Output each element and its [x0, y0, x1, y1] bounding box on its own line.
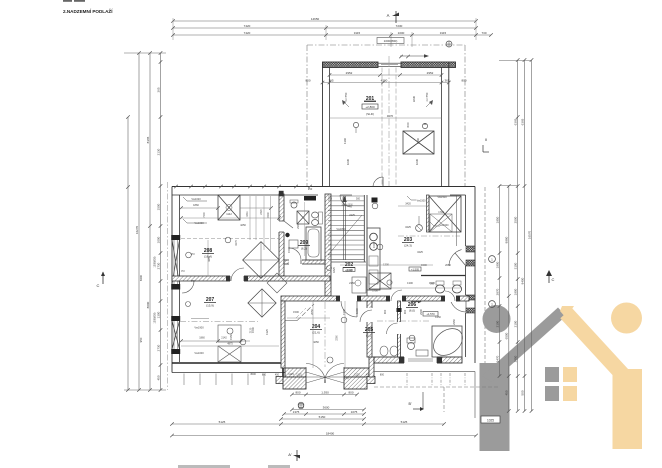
svg-text:(6,2): (6,2) — [301, 247, 307, 251]
svg-text:1325: 1325 — [265, 329, 269, 335]
svg-text:1500: 1500 — [429, 281, 435, 285]
svg-text:3470: 3470 — [495, 355, 499, 362]
svg-text:205: 205 — [365, 327, 374, 333]
svg-text:2100: 2100 — [514, 320, 518, 327]
svg-text:1000: 1000 — [355, 308, 359, 314]
svg-text:7420: 7420 — [244, 24, 251, 28]
svg-text:800: 800 — [380, 374, 385, 377]
logo tan figure head — [611, 303, 642, 334]
svg-text:1860: 1860 — [193, 203, 199, 207]
svg-text:8400: 8400 — [520, 277, 524, 284]
extension lines top chains — [172, 18, 174, 40]
entry double door arcs — [306, 364, 326, 384]
svg-text:P3: P3 — [191, 252, 195, 256]
wall 204 west — [281, 301, 285, 368]
extension strokes below wall — [183, 374, 185, 386]
svg-text:8365: 8365 — [146, 136, 150, 143]
svg-text:+1,570: +1,570 — [426, 312, 435, 316]
svg-text:1940: 1940 — [267, 212, 270, 218]
interior wall stair west vertical — [325, 194, 331, 296]
svg-text:4875: 4875 — [227, 343, 233, 346]
diagonal closet near 207 — [243, 242, 280, 279]
vent shaft dark box 209 — [304, 196, 316, 201]
arrow on top wall — [400, 55, 424, 57]
svg-text:4500: 4500 — [250, 372, 256, 376]
svg-text:18400: 18400 — [326, 431, 335, 435]
dash-dot stubs below south wall — [406, 373, 408, 386]
svg-text:1740: 1740 — [438, 211, 444, 214]
svg-text:500: 500 — [520, 390, 524, 395]
svg-text:C: C — [97, 283, 100, 288]
svg-text:1630: 1630 — [415, 158, 419, 165]
svg-text:1500: 1500 — [156, 203, 160, 210]
svg-text:1500: 1500 — [251, 327, 255, 333]
wc and bidet 209 — [312, 212, 319, 218]
kitchen counter 203 — [367, 228, 380, 290]
svg-text:800: 800 — [262, 374, 267, 377]
svg-text:2142: 2142 — [221, 337, 227, 340]
roof outline dash-dot top block — [307, 44, 465, 46]
svg-text:1125: 1125 — [354, 374, 360, 377]
svg-text:1950: 1950 — [229, 334, 233, 340]
south wall mid step — [369, 357, 374, 377]
stair door top — [340, 195, 352, 207]
svg-text:203: 203 — [404, 237, 413, 243]
svg-text:250: 250 — [308, 187, 313, 191]
svg-text:Vw1800: Vw1800 — [336, 227, 346, 231]
top dimension chain 7420/7230 — [173, 27, 476, 29]
crossed shaft room 208 — [218, 195, 240, 220]
svg-text:5125: 5125 — [219, 420, 226, 424]
svg-text:365: 365 — [156, 87, 160, 92]
svg-text:1500: 1500 — [287, 247, 291, 253]
dash-dot through 205/206 — [377, 320, 430, 322]
svg-text:450: 450 — [505, 390, 509, 395]
section marker C2 — [548, 271, 550, 283]
dim line room 207 — [181, 340, 250, 342]
svg-text:P3: P3 — [181, 269, 185, 273]
wc ovals right corridor — [435, 285, 444, 293]
shower crossed box 209 — [297, 211, 309, 224]
shaft box dark at stair top right — [372, 198, 378, 203]
svg-text:1450: 1450 — [435, 315, 441, 319]
washer room 209 — [289, 240, 298, 248]
svg-text:1025: 1025 — [487, 418, 494, 422]
south wall of room 207 — [172, 362, 283, 364]
right dimension chains — [499, 186, 501, 376]
svg-text:4450: 4450 — [207, 256, 211, 262]
circled num 207 — [186, 302, 191, 307]
svg-text:4670: 4670 — [387, 114, 394, 118]
svg-text:2850: 2850 — [514, 355, 518, 362]
entry wall right of door — [344, 368, 369, 377]
logo gray figure body — [480, 363, 510, 451]
svg-text:1300: 1300 — [342, 309, 346, 315]
svg-text:1700: 1700 — [372, 290, 378, 293]
svg-text:365: 365 — [444, 78, 449, 82]
door arcs on east wall — [449, 250, 462, 266]
svg-text:P3: P3 — [191, 279, 195, 283]
svg-text:1900: 1900 — [514, 288, 518, 295]
svg-text:2425: 2425 — [349, 213, 355, 217]
boxed level label 206 — [423, 312, 438, 317]
dresser room 207 — [218, 325, 241, 342]
svg-text:207: 207 — [206, 297, 215, 303]
svg-text:1140: 1140 — [416, 138, 420, 144]
svg-text:2300: 2300 — [419, 309, 423, 315]
svg-text:1860: 1860 — [199, 337, 205, 340]
interior dim lines — [181, 217, 279, 219]
hatched north wall of room 201 left part — [323, 62, 379, 68]
svg-text:1375: 1375 — [293, 410, 300, 414]
logo gray figure head — [483, 305, 511, 333]
svg-text:2500: 2500 — [514, 216, 518, 223]
svg-text:8400: 8400 — [139, 274, 143, 281]
svg-text:C: C — [552, 277, 555, 282]
center dash-dot room 204 — [324, 302, 326, 367]
svg-text:2730: 2730 — [156, 344, 160, 351]
svg-text:1950: 1950 — [495, 216, 499, 223]
terrace outline solid — [374, 371, 475, 373]
svg-text:800: 800 — [295, 390, 300, 394]
window in west wall (208) with X glazing — [171, 235, 180, 240]
center dashed lines in 201 — [381, 68, 383, 188]
svg-text:+1,505: +1,505 — [411, 267, 420, 271]
svg-text:3000: 3000 — [407, 122, 410, 128]
svg-text:(PS): (PS) — [343, 376, 348, 380]
wc 206 — [408, 343, 415, 350]
window in west wall (207) with X glazing — [171, 316, 180, 321]
svg-text:900: 900 — [383, 309, 387, 314]
svg-text:7200: 7200 — [203, 212, 206, 218]
logo tan arm / right roof slope — [566, 313, 623, 375]
svg-text:m=750: m=750 — [425, 92, 429, 101]
entry wall left of door — [285, 368, 306, 377]
svg-text:450: 450 — [275, 374, 280, 377]
boxed level labels corridor — [343, 268, 355, 272]
logo gray arm / left roof slope — [482, 308, 566, 383]
hatched north wall of room 201 right part — [401, 62, 456, 68]
svg-text:2730: 2730 — [156, 262, 160, 269]
svg-text:1140: 1140 — [343, 138, 347, 144]
svg-text:A': A' — [288, 452, 292, 457]
svg-text:2870: 2870 — [495, 288, 499, 295]
left chain top/bottom tick lines — [124, 52, 166, 54]
svg-text:5150: 5150 — [319, 415, 326, 419]
svg-text:450: 450 — [156, 375, 160, 380]
svg-text:2150: 2150 — [349, 281, 355, 285]
wall 209 south — [284, 260, 325, 264]
svg-text:206: 206 — [408, 302, 417, 308]
top dimension chain 7420/3115/1000/3115/730 — [173, 34, 491, 36]
circled nums on east facade — [489, 256, 496, 263]
bottom chain 3600 — [292, 409, 364, 411]
closet wall 202/203 — [427, 195, 430, 232]
svg-text:800: 800 — [305, 78, 310, 82]
dash-dot across 203 — [398, 235, 460, 237]
svg-text:1300: 1300 — [156, 311, 160, 318]
sink 206 — [416, 350, 428, 356]
svg-text:1500: 1500 — [293, 310, 299, 314]
svg-text:520: 520 — [342, 197, 347, 200]
bathroom 206 corner tub — [432, 326, 462, 357]
door at bottom of 201 — [373, 177, 383, 187]
dashed ceiling lines — [181, 237, 279, 239]
logo tan figure body — [613, 369, 643, 449]
svg-text:1500: 1500 — [372, 242, 376, 248]
bottom chain 5125/5125 — [172, 423, 444, 425]
svg-text:1900: 1900 — [495, 261, 499, 268]
window in north wall of 201 — [378, 62, 401, 64]
svg-text:8980: 8980 — [505, 236, 509, 243]
svg-text:(9,4): (9,4) — [346, 269, 352, 273]
svg-text:3420: 3420 — [405, 203, 411, 206]
svg-text:2100: 2100 — [495, 320, 499, 327]
svg-text:1125: 1125 — [296, 374, 302, 377]
svg-text:II: II — [485, 138, 487, 142]
bottom chain 1375/1075 — [284, 413, 364, 415]
bottom chain 800/1930/800 — [292, 394, 357, 396]
svg-text:4250: 4250 — [240, 223, 246, 227]
wall 204/205 — [367, 301, 372, 357]
svg-text:8000: 8000 — [146, 301, 150, 308]
dash-dot through 207 — [180, 321, 258, 323]
svg-text:2300: 2300 — [296, 223, 300, 229]
circled numbers — [225, 237, 231, 243]
svg-text:(24,3): (24,3) — [404, 244, 412, 248]
svg-text:4175: 4175 — [234, 240, 238, 246]
svg-text:(SLD): (SLD) — [366, 112, 374, 116]
svg-text:365: 365 — [328, 78, 333, 82]
svg-text:6365: 6365 — [520, 118, 524, 125]
boxed label 1000(800) — [377, 38, 404, 44]
svg-text:Vw1020: Vw1020 — [191, 197, 201, 201]
svg-text:800: 800 — [461, 78, 466, 82]
svg-text:1000(800): 1000(800) — [384, 39, 398, 43]
main north wall — [172, 186, 475, 188]
svg-text:16270: 16270 — [135, 225, 139, 234]
interior wall 208/209 vertical — [279, 194, 284, 276]
wall 205/206 — [398, 301, 401, 357]
porch wall stub right — [344, 377, 367, 389]
svg-text:1300: 1300 — [407, 281, 413, 285]
svg-text:4500: 4500 — [381, 78, 388, 82]
svg-text:3115: 3115 — [354, 31, 361, 35]
svg-text:5125: 5125 — [401, 420, 408, 424]
circled 2 — [327, 266, 332, 271]
svg-text:2130: 2130 — [156, 148, 160, 155]
svg-text:2320: 2320 — [260, 209, 263, 215]
svg-text:1,930: 1,930 — [321, 390, 329, 394]
svg-text:500: 500 — [328, 197, 333, 200]
svg-text:16570: 16570 — [527, 230, 531, 239]
svg-text:A: A — [387, 13, 390, 18]
svg-text:1825: 1825 — [332, 267, 336, 273]
svg-text:4250: 4250 — [313, 340, 319, 344]
interior wall stair east vertical — [363, 195, 365, 262]
svg-text:2350: 2350 — [452, 319, 456, 325]
svg-text:Vw1900: Vw1900 — [194, 326, 204, 330]
svg-text:3230: 3230 — [412, 95, 416, 102]
svg-text:2050: 2050 — [310, 309, 314, 315]
bathtub room 209 — [306, 227, 321, 260]
svg-text:+2,800: +2,800 — [365, 105, 375, 109]
wc+bidet 205 — [380, 346, 388, 356]
dim line row under north wall 208 — [181, 207, 218, 209]
roof overhang dashed line right — [484, 187, 486, 378]
porch wall stub left — [276, 377, 283, 384]
dim line mid 209 — [304, 202, 306, 256]
svg-text:Vw1000: Vw1000 — [194, 351, 204, 355]
svg-text:730: 730 — [481, 31, 486, 35]
svg-text:3600: 3600 — [323, 405, 330, 409]
main west wall — [171, 187, 173, 373]
interior wall 208/207 horizontal — [172, 276, 330, 281]
svg-text:208: 208 — [204, 248, 213, 254]
svg-text:2050: 2050 — [445, 263, 451, 267]
crossed furniture 207 south — [218, 346, 241, 362]
ticks along north wall — [174, 185, 178, 189]
door jambs east wall — [466, 246, 475, 252]
svg-text:1300: 1300 — [383, 263, 389, 267]
crossed wardrobe 203 — [429, 196, 461, 232]
svg-text:3260: 3260 — [336, 335, 339, 341]
svg-text:1125: 1125 — [288, 372, 294, 376]
svg-text:Vw1900: Vw1900 — [439, 224, 449, 227]
terrace dashed outline — [374, 386, 500, 388]
south wall step connector — [282, 363, 284, 377]
door arc 207 from corridor — [182, 281, 194, 293]
svg-text:3425: 3425 — [417, 250, 423, 254]
svg-text:1075: 1075 — [351, 410, 358, 414]
svg-text:6365: 6365 — [514, 118, 518, 125]
svg-text:7230: 7230 — [396, 24, 403, 28]
svg-text:3115: 3115 — [440, 31, 447, 35]
main east wall — [474, 187, 476, 364]
niche outline 204 upper left — [285, 320, 297, 322]
east wall of 201 — [448, 62, 450, 187]
svg-text:(21,6): (21,6) — [312, 331, 320, 335]
svg-text:209: 209 — [300, 240, 309, 246]
floor drain dot — [285, 233, 289, 237]
west wall of 201 — [322, 62, 324, 187]
svg-text:2952: 2952 — [427, 71, 434, 75]
svg-text:6500: 6500 — [505, 332, 509, 339]
bottom chain 18400 — [172, 435, 476, 437]
south wall right part with window — [374, 357, 462, 363]
svg-text:2.NADZEMNÍ PODLAŽÍ: 2.NADZEMNÍ PODLAŽÍ — [63, 7, 113, 14]
dim row inside 201 top — [330, 74, 442, 76]
svg-text:m=750: m=750 — [344, 92, 348, 101]
svg-text:1000: 1000 — [156, 236, 160, 243]
top dimension chain 14650 — [173, 20, 476, 22]
svg-text:Vw1000: Vw1000 — [194, 221, 204, 225]
logo house window tan panes — [563, 367, 577, 382]
svg-text:(3,1): (3,1) — [366, 334, 372, 338]
lamp symbol 203 — [416, 225, 423, 232]
svg-text:B': B' — [408, 402, 411, 406]
section marker C — [102, 272, 104, 284]
skylight crossed box in 201 — [403, 131, 434, 154]
footer fragment — [178, 465, 230, 468]
boxed 1025 — [481, 416, 500, 423]
svg-text:3425: 3425 — [405, 225, 411, 229]
circled node top right — [446, 41, 452, 47]
wc room north wall right — [421, 275, 466, 277]
circled symbol bottom — [298, 402, 304, 408]
svg-text:950: 950 — [139, 337, 143, 342]
svg-text:900: 900 — [403, 309, 407, 314]
svg-text:1000: 1000 — [398, 31, 405, 35]
svg-text:(15,9): (15,9) — [206, 304, 214, 308]
svg-text:800: 800 — [348, 390, 353, 394]
right chain top tick lines — [499, 60, 532, 62]
left dimension chains — [127, 117, 129, 390]
sink room 209 — [291, 202, 297, 208]
arrow near 206 — [411, 301, 418, 303]
logo house window gray panes — [545, 367, 559, 382]
roof overhang dash-dot line left — [167, 182, 169, 390]
dining table 203 — [369, 273, 391, 289]
svg-text:Vw1500: Vw1500 — [416, 200, 426, 203]
svg-text:1630: 1630 — [346, 158, 350, 165]
svg-text:7420: 7420 — [244, 31, 251, 35]
svg-text:1142: 1142 — [226, 212, 232, 216]
dark pier top of wall C — [279, 191, 284, 197]
svg-text:(6,0): (6,0) — [409, 309, 415, 313]
svg-text:2952: 2952 — [346, 71, 353, 75]
bottom chain 5150 — [281, 418, 364, 420]
svg-text:1000(900): 1000(900) — [154, 256, 157, 267]
svg-text:1611: 1611 — [246, 211, 249, 217]
staircase — [328, 195, 364, 197]
svg-text:3100: 3100 — [514, 262, 518, 269]
closet edge line 202 — [456, 195, 458, 246]
interior corridor wall horizontal — [281, 296, 469, 301]
svg-text:Vw1500: Vw1500 — [437, 195, 447, 199]
kitchen lower cabinets 202 side — [352, 277, 366, 293]
svg-text:1000(900): 1000(900) — [154, 312, 157, 323]
svg-text:500: 500 — [356, 197, 361, 200]
circled 14 above door — [327, 357, 333, 363]
svg-text:14650: 14650 — [311, 17, 320, 21]
circled drain symbols in 201 — [353, 122, 358, 127]
leader hooks Vw labels — [183, 197, 207, 201]
